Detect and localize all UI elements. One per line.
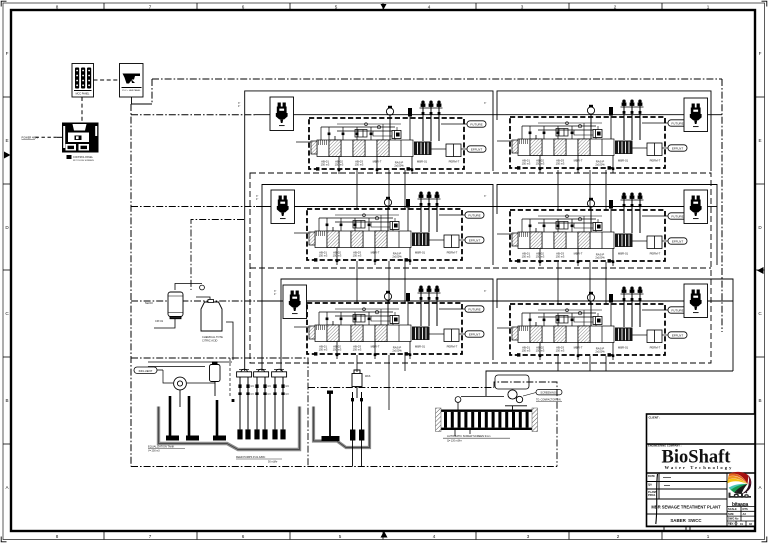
svg-text:AUTOMATIC SCREW SCREEN 3mm: AUTOMATIC SCREW SCREEN 3mm: [447, 434, 490, 438]
svg-text:8: 8: [56, 534, 59, 539]
svg-text:B: B: [758, 398, 761, 403]
power feed tag: [22, 136, 63, 140]
svg-text:6: 6: [242, 5, 245, 10]
blower B-301: [283, 285, 307, 319]
control panel label: [67, 155, 95, 162]
svg-text:QA: QA: [648, 483, 652, 487]
row2 right air header: [497, 185, 717, 266]
MBR module 3 (train A row 3): [294, 286, 484, 360]
svg-text:V= 250 m3: V= 250 m3: [148, 450, 160, 453]
CIP tank T-401: [168, 292, 183, 319]
ruler tick marks top band: [104, 3, 662, 10]
bitaaqa arabic wordmark: [729, 491, 752, 498]
blower B-202: [684, 190, 708, 224]
svg-text:NaOCl: NaOCl: [145, 301, 153, 305]
top signal rail: [152, 78, 722, 80]
svg-text:Water Technology: Water Technology: [664, 465, 733, 470]
MBR module 5 (train B row 2): [497, 193, 687, 267]
EQ basin walls: [159, 407, 300, 450]
sludge basin walls: [314, 407, 370, 448]
title block outline: [647, 414, 756, 527]
right signal riser: [721, 79, 723, 332]
EQ basin label: [148, 445, 185, 453]
screen area dash-dot enclosure: [494, 382, 557, 467]
screen drain stubs: [455, 430, 470, 436]
air vessel: [210, 362, 221, 397]
svg-text:SCREENINGS: SCREENINGS: [540, 391, 557, 395]
svg-text:3": 3": [484, 290, 486, 293]
MBR module 1 (train A row 1): [296, 101, 486, 175]
ruler tick marks bottom band: [104, 531, 662, 540]
svg-text:4": 4": [238, 105, 240, 108]
blower feed bus row2: [131, 206, 256, 208]
svg-text:PLC + HMI PANEL: PLC + HMI PANEL: [122, 89, 141, 92]
train divider dashed: [250, 267, 711, 269]
ruler letters right: [758, 51, 762, 490]
MBR module 4 (train B row 1): [497, 100, 687, 174]
blower B-201: [271, 190, 295, 224]
row3 blower line: [258, 300, 684, 302]
svg-text:W/ TOUCH SCREEN: W/ TOUCH SCREEN: [73, 160, 94, 162]
svg-text:CITRIC ACID: CITRIC ACID: [202, 339, 218, 343]
svg-text:6: 6: [242, 534, 245, 539]
svg-text:CHEMICAL TOTE: CHEMICAL TOTE: [202, 335, 223, 339]
sludge basin wall inner line: [314, 407, 370, 448]
row2 left air header: [262, 185, 493, 372]
svg-text:CLIENT :: CLIENT :: [649, 416, 661, 420]
wire MCC down to control panel: [81, 97, 83, 123]
svg-text:2: 2: [614, 5, 617, 10]
ruler numbers top: [56, 5, 710, 10]
dosing drop valve: [232, 399, 235, 402]
svg-text:2: 2: [617, 534, 620, 539]
svg-text:CONTROL PANEL: CONTROL PANEL: [73, 156, 94, 159]
svg-text:50 m3/hr: 50 m3/hr: [268, 461, 278, 464]
grinder pump: [174, 377, 187, 407]
svg-text:A3: A3: [743, 512, 747, 516]
MBR module 6 (train B row 3): [497, 287, 687, 361]
chem feed pipe: [154, 284, 233, 361]
svg-text:Q= 120 m3/hr: Q= 120 m3/hr: [447, 440, 462, 443]
svg-text:E: E: [5, 138, 8, 143]
svg-text:3: 3: [521, 5, 524, 10]
row2 blower line: [256, 206, 684, 208]
interconnect risers mid: [357, 170, 606, 410]
basin internal walls: [170, 396, 217, 436]
svg-text:F: F: [6, 51, 9, 56]
svg-text:4": 4": [256, 198, 258, 201]
ruler letters left: [5, 51, 9, 490]
svg-text:4": 4": [274, 293, 276, 296]
feed pump set 1: [237, 369, 255, 439]
basin floor mixers: [166, 436, 226, 441]
svg-text:MCC PANEL: MCC PANEL: [76, 93, 90, 96]
row3 right air header: [497, 279, 733, 371]
dosing assembly above sludge basin: [352, 370, 362, 398]
chemical tote T-402: [201, 302, 222, 331]
revision table texts: [728, 507, 752, 526]
svg-text:3": 3": [484, 102, 486, 105]
svg-text:B: B: [5, 398, 8, 403]
left signal riser: [130, 104, 132, 467]
svg-text:SABER SWCC: SABER SWCC: [670, 518, 702, 523]
screen label: [443, 434, 510, 443]
svg-text:5: 5: [339, 534, 342, 539]
feed pump set 2: [254, 369, 272, 439]
row3 left air header: [281, 279, 493, 371]
svg-text:E: E: [758, 138, 761, 143]
bitaaqa logo pinwheel: [728, 472, 752, 494]
center arrow marker top: [381, 4, 387, 10]
blower feed bus row3: [131, 300, 258, 302]
svg-text:DATE: DATE: [648, 474, 655, 478]
svg-text:EQUALIZATION TANK: EQUALIZATION TANK: [148, 445, 174, 449]
train 2-3 dashed enclosure: [250, 173, 711, 363]
chem tank labels: [145, 301, 223, 343]
svg-text:8: 8: [56, 5, 59, 10]
ruler numbers bottom: [56, 534, 710, 539]
hmi drop wire: [132, 97, 153, 104]
bus riser to top rail: [151, 79, 153, 104]
row3 blower line right stub: [708, 300, 734, 302]
svg-text:1: 1: [707, 5, 710, 10]
screen feed pump: [505, 390, 527, 410]
pipe size labels: [238, 102, 486, 296]
row1 blower line right stub: [708, 114, 723, 116]
membrane train collect pipe: [486, 371, 733, 396]
bottom strip cells: [664, 526, 690, 531]
sludge/screen area dash-dot enclosure: [308, 387, 494, 389]
coarse screen piping: [148, 362, 232, 383]
screen inlet instrument: [455, 397, 504, 411]
client box: [649, 416, 661, 420]
svg-text:WAS: WAS: [365, 375, 371, 378]
row1 right air header: [497, 91, 711, 171]
svg-text:CIP-01: CIP-01: [155, 319, 164, 323]
EQ area dash-dot enclosure: [131, 358, 308, 467]
center arrow marker bottom: [381, 531, 388, 538]
svg-text:INFLUENT: INFLUENT: [139, 369, 153, 373]
wire MCC to HMI: [94, 79, 120, 81]
svg-text:SCALE: SCALE: [728, 507, 737, 511]
feed pump set 3: [272, 369, 290, 439]
svg-text:F: F: [759, 51, 762, 56]
svg-text:4: 4: [428, 5, 431, 10]
main control panel: [62, 123, 99, 153]
ruler tick marks left band: [3, 97, 11, 444]
svg-text:1: 1: [707, 534, 710, 539]
ruler tick marks right band: [755, 97, 765, 444]
title block small labels: [648, 474, 657, 497]
approval signature stroke: [656, 474, 658, 524]
screen feed pump loop: [495, 375, 529, 389]
tote cap: [208, 300, 214, 303]
sludge pumps: [350, 375, 371, 467]
svg-text:3": 3": [484, 195, 486, 198]
svg-text:4: 4: [433, 534, 436, 539]
dosing valve: [200, 285, 205, 290]
blower B-101: [270, 97, 294, 131]
svg-text:SIZE: SIZE: [728, 512, 734, 516]
center arrow marker right: [757, 267, 764, 274]
MBR module 2 (train A row 2): [294, 192, 484, 266]
future line divider dashed: [229, 358, 231, 398]
blower feed bus row1: [131, 114, 255, 116]
svg-text:FEED PUMPS P-01 A/B/C: FEED PUMPS P-01 A/B/C: [236, 456, 266, 459]
sludge mixer: [322, 391, 340, 442]
pump labels: [236, 456, 282, 464]
center arrow marker left: [4, 152, 11, 159]
date scribble: [663, 478, 671, 486]
pump tags: [523, 390, 562, 402]
HMI panel: [120, 64, 144, 98]
blower B-102: [684, 98, 708, 132]
bottom signal rail: [131, 466, 557, 468]
row2 blower line right stub: [708, 206, 718, 208]
row1 left air header: [245, 91, 493, 371]
MCC panel: [72, 64, 94, 98]
engineering company box (BioShaft): [647, 444, 756, 473]
svg-text:7: 7: [149, 534, 152, 539]
revision mini table: [727, 507, 755, 527]
svg-text:DWG No: DWG No: [728, 517, 739, 521]
chem dosing signal line: [191, 220, 244, 291]
row1 blower line: [255, 114, 684, 116]
svg-text:NTS: NTS: [743, 507, 748, 511]
svg-text:7: 7: [149, 5, 152, 10]
svg-text:MBR SEWAGE TREATMENT PLANT: MBR SEWAGE TREATMENT PLANT: [651, 505, 721, 510]
influent tag: [134, 367, 163, 373]
title block row grid: [647, 473, 756, 526]
svg-text:3: 3: [527, 534, 530, 539]
svg-text:5: 5: [335, 5, 338, 10]
svg-text:PROJ.: PROJ.: [648, 493, 656, 497]
EQ basin wall inner line: [159, 407, 300, 450]
screw screen body: [436, 408, 538, 432]
blower B-302: [684, 284, 708, 318]
